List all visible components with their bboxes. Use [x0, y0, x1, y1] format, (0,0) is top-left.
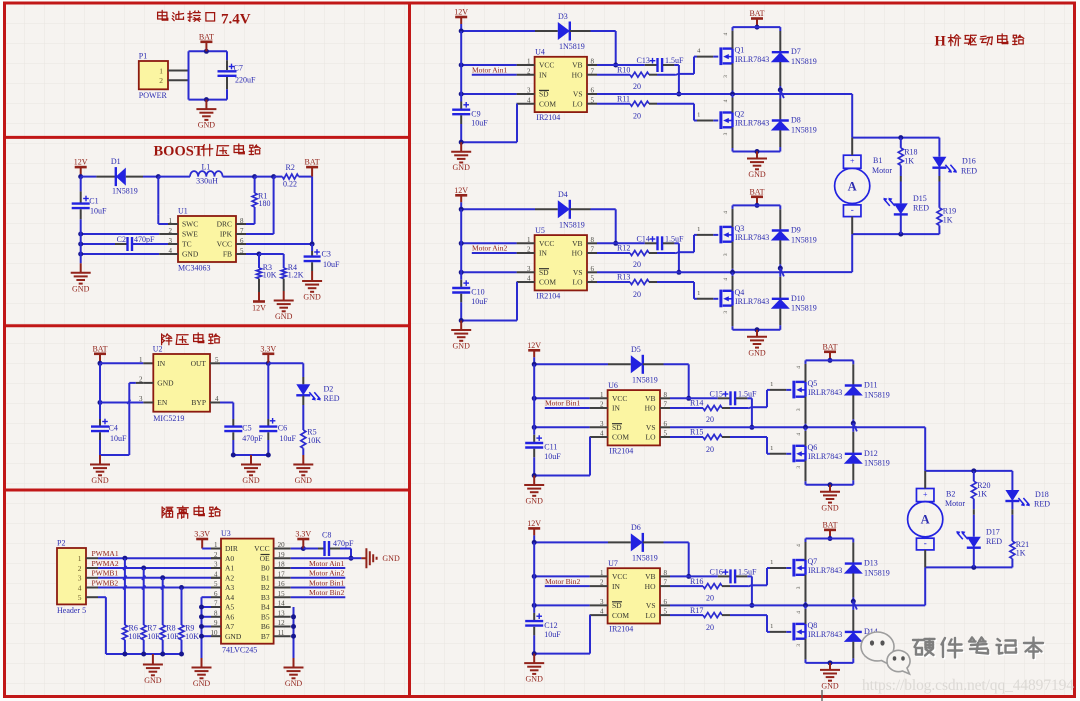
pin stub [274, 557, 291, 559]
svg-text:COM: COM [612, 433, 629, 442]
svg-text:3: 3 [796, 644, 802, 647]
junction [459, 270, 464, 275]
wire [330, 548, 340, 550]
wire [534, 575, 589, 577]
wire [616, 242, 645, 244]
svg-text:10K: 10K [307, 436, 321, 445]
wire [722, 407, 730, 409]
wire [722, 436, 730, 438]
wire [852, 542, 854, 563]
wire [80, 254, 82, 263]
power port 3.3V [297, 539, 309, 549]
wire [98, 557, 211, 559]
capacitor C7 plates [218, 71, 237, 76]
svg-text:BAT: BAT [822, 520, 837, 529]
wire [311, 251, 313, 256]
wire [852, 233, 939, 235]
resistor R3 zigzag [257, 268, 262, 279]
wire [663, 64, 674, 66]
wire [697, 298, 713, 300]
wire [938, 182, 940, 208]
wire [786, 453, 791, 455]
BAT rail [806, 538, 854, 540]
svg-text:U3: U3 [221, 529, 231, 538]
junction [676, 92, 681, 97]
resistor R4 zigzag [281, 268, 286, 279]
wire [302, 448, 304, 455]
wire [779, 205, 781, 209]
junction [898, 232, 903, 237]
svg-text:RED: RED [986, 537, 1002, 546]
svg-text:VS: VS [573, 90, 583, 99]
capacitor C14 plates [658, 236, 663, 250]
svg-text:TC: TC [182, 240, 192, 249]
junction [199, 624, 204, 629]
wire [159, 233, 168, 235]
GND rail [733, 329, 781, 331]
wire [852, 419, 854, 423]
wire [779, 31, 781, 52]
capacitor C6 plates [259, 427, 277, 432]
wire [233, 454, 268, 456]
wire [96, 176, 115, 178]
pin stub [211, 596, 221, 598]
wire [570, 208, 591, 210]
wire [302, 405, 304, 430]
svg-text:4: 4 [723, 278, 729, 281]
svg-text:B5: B5 [261, 613, 270, 622]
wire [201, 597, 203, 658]
svg-text:SWE: SWE [182, 230, 198, 239]
power port 3.3V [196, 539, 208, 549]
pin stub [211, 587, 221, 589]
diode D14 symbol [845, 631, 862, 633]
svg-text:C10: C10 [471, 288, 484, 297]
wire jog [123, 576, 126, 580]
wire [246, 243, 312, 245]
wire [591, 208, 616, 210]
wire [900, 165, 902, 176]
wire [779, 130, 781, 147]
wire [299, 176, 313, 178]
wire [158, 223, 168, 225]
pin stub [587, 103, 597, 105]
junction [459, 318, 464, 323]
wire [533, 613, 535, 620]
pin stub [168, 223, 178, 225]
svg-text:B1: B1 [873, 156, 882, 165]
wire [226, 60, 228, 70]
wire [670, 426, 752, 428]
svg-text:DRC: DRC [217, 220, 232, 229]
capacitor C3 plates [304, 257, 321, 262]
junction [141, 566, 146, 571]
svg-text:GND: GND [453, 342, 471, 351]
svg-text:12V: 12V [74, 158, 88, 167]
wire jog [675, 74, 679, 76]
junction [851, 421, 856, 426]
svg-text:1K: 1K [1016, 549, 1026, 558]
wire [657, 74, 675, 76]
svg-text:C6: C6 [278, 423, 287, 432]
wire [732, 276, 734, 291]
svg-text:B7: B7 [261, 632, 270, 641]
wire [226, 89, 228, 99]
svg-text:20: 20 [706, 415, 714, 424]
transistor Q8 [794, 623, 806, 641]
LED D2 symbol [296, 384, 310, 395]
wire [162, 578, 164, 625]
wire [461, 93, 516, 95]
diode D3 symbol [558, 22, 570, 40]
pin stub [86, 567, 98, 569]
resistor R9 zigzag [179, 625, 184, 640]
wire [779, 209, 781, 230]
svg-text:12V: 12V [454, 8, 468, 17]
svg-text:1N5819: 1N5819 [864, 459, 890, 468]
motor B2 [908, 489, 943, 550]
wire [852, 364, 854, 385]
wire [938, 138, 940, 157]
capacitor C2 plates [128, 237, 133, 251]
GND rail [733, 151, 781, 153]
svg-text:SD: SD [612, 423, 622, 432]
pin stub [517, 252, 535, 254]
ground [524, 654, 544, 674]
wire jog [748, 585, 752, 587]
svg-text:Q1: Q1 [735, 46, 745, 55]
svg-text:IR2104: IR2104 [609, 624, 633, 633]
svg-text:HO: HO [645, 404, 656, 413]
svg-text:C15: C15 [710, 389, 723, 398]
svg-text:GND: GND [748, 348, 766, 357]
wire [732, 242, 734, 269]
svg-text:C9: C9 [471, 109, 480, 118]
pin stub [517, 64, 535, 66]
wire [674, 64, 679, 66]
svg-text:C2: C2 [117, 235, 126, 244]
wire [722, 585, 730, 587]
svg-text:B3: B3 [261, 593, 270, 602]
pin stub [236, 253, 246, 255]
junction [310, 242, 315, 247]
svg-text:VS: VS [646, 601, 656, 610]
pin stub [587, 252, 597, 254]
wire [852, 597, 854, 601]
svg-text:B2: B2 [946, 489, 955, 498]
svg-text:Q2: Q2 [735, 110, 745, 119]
svg-text:A0: A0 [225, 554, 234, 563]
svg-text:A2: A2 [225, 574, 234, 583]
BAT rail [806, 359, 854, 361]
GND rail [806, 662, 854, 664]
junction [199, 634, 204, 639]
svg-text:20: 20 [633, 260, 641, 269]
wire [268, 362, 303, 364]
wire [589, 614, 591, 616]
wire [129, 382, 136, 384]
junction [532, 651, 537, 656]
ground [451, 321, 471, 341]
title 隔离电路 [162, 507, 173, 518]
svg-text:LO: LO [573, 278, 584, 287]
pin stub [660, 614, 670, 616]
wire [115, 243, 127, 245]
wire jog [123, 566, 126, 570]
capacitor C16 plates [731, 569, 736, 583]
junction [78, 242, 83, 247]
transistor Q4 [721, 290, 733, 308]
wire [98, 587, 211, 589]
junction [459, 241, 464, 246]
diode D4 symbol [558, 200, 570, 218]
svg-text:C14: C14 [637, 234, 650, 243]
pin stub [211, 577, 221, 579]
svg-text:D4: D4 [558, 190, 568, 199]
wire [461, 320, 517, 322]
wire [730, 585, 748, 587]
svg-text:OE: OE [260, 554, 270, 563]
svg-text:D10: D10 [791, 294, 805, 303]
svg-text:IR2104: IR2104 [536, 291, 560, 300]
wire [649, 74, 657, 76]
pin stub [660, 604, 670, 606]
wire [516, 282, 518, 321]
wire [779, 264, 781, 268]
wire [938, 168, 940, 176]
svg-text:Motor Bin1: Motor Bin1 [309, 578, 344, 587]
wire [99, 440, 101, 455]
wire [597, 103, 630, 105]
diode D1 symbol [116, 168, 126, 186]
wire [589, 436, 591, 438]
svg-text:D17: D17 [986, 527, 1000, 536]
pin stub [660, 575, 670, 577]
wire [460, 102, 462, 109]
svg-text:GND: GND [821, 681, 839, 690]
wire [461, 208, 535, 210]
svg-text:10K: 10K [263, 271, 277, 280]
pin stub [517, 271, 535, 273]
svg-text:Motor Bin2: Motor Bin2 [545, 577, 580, 586]
svg-text:1: 1 [770, 445, 773, 452]
junction [122, 652, 127, 657]
U2 body [153, 354, 210, 412]
junction [199, 605, 204, 610]
svg-text:Motor: Motor [945, 499, 965, 508]
wire [460, 124, 462, 142]
wire [311, 244, 313, 251]
wire [649, 281, 657, 283]
ground [90, 455, 110, 475]
svg-text:1N5819: 1N5819 [791, 57, 817, 66]
wire [697, 234, 713, 236]
svg-text:GND: GND [193, 679, 211, 688]
svg-text:4: 4 [723, 32, 729, 35]
resistor R19 zigzag [937, 208, 942, 226]
svg-text:IPK: IPK [220, 230, 233, 239]
wire [258, 254, 260, 268]
svg-text:A6: A6 [225, 613, 234, 622]
wire to pin2 [81, 233, 160, 235]
wire [649, 103, 657, 105]
wire [533, 542, 535, 613]
svg-text:D15: D15 [913, 194, 927, 203]
resistor R8 zigzag [160, 625, 165, 640]
wire [534, 541, 608, 543]
pin stub [517, 74, 535, 76]
svg-text:IN: IN [612, 404, 620, 413]
svg-text:GND: GND [526, 497, 544, 506]
wire [472, 74, 517, 76]
wire [732, 209, 734, 227]
junction [204, 49, 209, 54]
pin stub [587, 74, 597, 76]
transistor Q1 [721, 47, 733, 65]
wire jog [161, 585, 164, 589]
ground [241, 455, 261, 475]
SD overline [612, 423, 622, 425]
wire [535, 30, 558, 32]
power port BAT [94, 354, 106, 364]
wire [616, 64, 645, 66]
wire [143, 568, 145, 625]
wire [736, 397, 747, 399]
svg-text:10uF: 10uF [90, 207, 107, 216]
transistor Q5 [794, 381, 806, 399]
junction [141, 652, 146, 657]
wire [460, 302, 462, 320]
wire [246, 233, 274, 235]
motor lead [851, 138, 853, 156]
wire [273, 177, 275, 234]
wire [805, 397, 807, 424]
svg-text:IRLR7843: IRLR7843 [735, 55, 769, 64]
svg-text:BAT: BAT [749, 187, 764, 196]
wire [643, 363, 664, 365]
svg-text:D1: D1 [111, 157, 121, 166]
SD overline [539, 89, 549, 91]
wire [124, 640, 126, 654]
svg-text:IRLR7843: IRLR7843 [735, 233, 769, 242]
junction [266, 361, 271, 366]
svg-text:DIR: DIR [225, 544, 238, 553]
phase rail [733, 93, 785, 95]
wire [779, 147, 781, 152]
wire [805, 542, 807, 560]
svg-text:1.5uF: 1.5uF [738, 389, 757, 398]
wire [713, 120, 718, 122]
pin stub [210, 402, 220, 404]
svg-text:PWMA1: PWMA1 [92, 549, 119, 558]
wire [597, 281, 630, 283]
svg-text:20: 20 [633, 82, 641, 91]
svg-text:3.3V: 3.3V [260, 344, 276, 353]
wire [267, 419, 269, 426]
svg-text:C12: C12 [544, 621, 557, 630]
svg-text:IN: IN [157, 359, 165, 368]
svg-text:Motor Ain1: Motor Ain1 [309, 559, 344, 568]
svg-text:OUT: OUT [191, 359, 207, 368]
wire [162, 640, 164, 654]
svg-text:IN: IN [612, 582, 620, 591]
svg-text:3: 3 [78, 574, 82, 583]
svg-text:GND: GND [295, 476, 313, 485]
svg-text:470pF: 470pF [242, 434, 263, 443]
junction [257, 252, 262, 257]
svg-text:R17: R17 [690, 606, 703, 615]
svg-text:IRLR7843: IRLR7843 [808, 388, 842, 397]
ground [293, 455, 313, 475]
svg-text:BAT: BAT [199, 32, 214, 41]
wire jog [142, 576, 145, 580]
junction [532, 473, 537, 478]
wire [657, 103, 694, 105]
junction [179, 652, 184, 657]
svg-text:HO: HO [572, 249, 583, 258]
wire [589, 437, 591, 476]
svg-text:10uF: 10uF [323, 260, 340, 269]
wire [143, 362, 153, 364]
junction [98, 361, 103, 366]
svg-text:IN: IN [539, 249, 547, 258]
wire jog [675, 252, 679, 254]
wire [732, 63, 734, 90]
ground [302, 271, 322, 292]
junction [349, 556, 354, 561]
wire [293, 607, 295, 658]
pin 2 stub [168, 79, 189, 81]
wire [128, 383, 130, 455]
wire [460, 31, 462, 102]
wire [938, 176, 940, 182]
svg-text:D5: D5 [631, 345, 641, 354]
svg-text:L1: L1 [202, 163, 211, 172]
wire [1011, 471, 1013, 490]
wire [973, 509, 975, 515]
junction [532, 540, 537, 545]
ground [143, 654, 163, 675]
watermark wechat icon [861, 632, 910, 674]
junction [98, 400, 103, 405]
svg-text:Motor: Motor [872, 166, 892, 175]
SD overline [612, 601, 622, 603]
pin stub [274, 616, 291, 618]
svg-text:C3: C3 [322, 250, 331, 259]
resistor R2 zigzag [282, 174, 298, 179]
svg-text:COM: COM [539, 99, 556, 108]
svg-text:VB: VB [645, 572, 655, 581]
junction [532, 396, 537, 401]
svg-text:IRLR7843: IRLR7843 [808, 452, 842, 461]
wire [973, 499, 975, 510]
svg-text:RED: RED [913, 204, 929, 213]
svg-text:POWER: POWER [139, 91, 168, 100]
svg-text:12V: 12V [527, 519, 541, 528]
pin stub [86, 557, 98, 559]
svg-text:1N5819: 1N5819 [791, 304, 817, 313]
wire [805, 609, 807, 624]
resistor R21 zigzag [1010, 541, 1015, 559]
svg-text:C16: C16 [710, 567, 723, 576]
svg-text:5: 5 [78, 593, 82, 602]
pin stub [660, 585, 670, 587]
wire [805, 431, 807, 446]
wire [688, 542, 690, 576]
wire [670, 436, 703, 438]
junction [459, 92, 464, 97]
pin stub [517, 281, 535, 283]
